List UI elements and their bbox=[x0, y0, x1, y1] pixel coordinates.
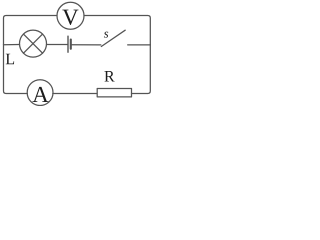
wire top-right segment bbox=[84, 16, 150, 45]
wire left lower segment bbox=[4, 45, 28, 94]
wire right lower segment bbox=[132, 45, 151, 94]
battery cell short plate bbox=[70, 40, 72, 49]
resistor R box bbox=[97, 89, 131, 97]
voltmeter V1 circle bbox=[57, 2, 84, 29]
switch S lever bbox=[101, 30, 125, 46]
label R of resistor bbox=[104, 71, 114, 81]
label L of lamp bbox=[6, 54, 14, 64]
battery cell long plate bbox=[67, 36, 69, 52]
label A of ammeter bbox=[32, 87, 48, 102]
wire top-left segment bbox=[4, 16, 58, 45]
wire middle-left to lamp bbox=[4, 44, 20, 46]
wire lamp to battery bbox=[47, 44, 68, 46]
lamp L circle bbox=[20, 30, 47, 57]
wire bottom ammeter to resistor bbox=[53, 93, 97, 95]
label s of switch bbox=[104, 32, 108, 38]
wire battery to switch bbox=[72, 44, 101, 46]
wire switch to right bbox=[128, 44, 151, 46]
ammeter A1 circle bbox=[27, 80, 53, 106]
lamp L cross bbox=[23, 34, 42, 53]
label V of voltmeter bbox=[62, 10, 78, 25]
